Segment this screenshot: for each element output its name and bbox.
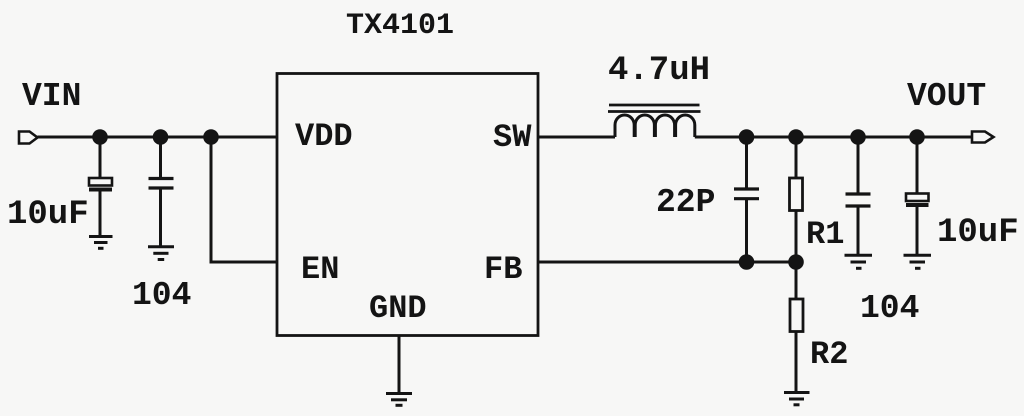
junction node FB divider bbox=[788, 254, 804, 270]
junction node at C1 bbox=[92, 129, 108, 145]
svg-text:FB: FB bbox=[484, 251, 522, 288]
svg-text:TX4101: TX4101 bbox=[346, 9, 454, 43]
ground under IC GND bbox=[386, 394, 412, 406]
wire GND lead under IC bbox=[398, 336, 401, 393]
ground under C5 bbox=[904, 255, 932, 268]
wire inductor to VOUT terminal bbox=[695, 136, 972, 139]
inductor L1 4.7uH bbox=[608, 105, 701, 137]
capacitor C4 104 output ceramic bbox=[846, 137, 871, 254]
svg-text:R2: R2 bbox=[810, 336, 848, 373]
ground under C2 bbox=[148, 247, 174, 260]
svg-text:GND: GND bbox=[369, 290, 427, 327]
wire FB (FB pin to feedback node) bbox=[538, 261, 796, 264]
output terminal VOUT bbox=[972, 132, 994, 143]
svg-text:EN: EN bbox=[301, 251, 339, 288]
wire EN (tap down and into EN pin) bbox=[211, 137, 277, 262]
junction node at C4 104 bbox=[850, 129, 866, 145]
ground under C4 bbox=[845, 255, 873, 268]
svg-text:4.7uH: 4.7uH bbox=[608, 52, 710, 90]
resistor R2 bbox=[790, 262, 803, 391]
junction node at C3 bottom bbox=[739, 254, 755, 270]
capacitor C5 10uF output electrolytic bbox=[906, 137, 929, 254]
junction node at C5 10uF bbox=[909, 129, 925, 145]
wire VIN rail (terminal to VDD pin) bbox=[38, 136, 278, 139]
junction node at EN tap bbox=[203, 129, 219, 145]
capacitor C2 104 input ceramic bbox=[149, 137, 174, 246]
junction node at C3 22P bbox=[739, 129, 755, 145]
capacitor C1 10uF input electrolytic bbox=[89, 137, 112, 235]
capacitor C3 22P feedforward bbox=[734, 137, 759, 262]
junction node at R1 top bbox=[788, 129, 804, 145]
IC U1 TX4101 body bbox=[277, 74, 538, 336]
resistor R1 bbox=[790, 137, 803, 262]
ground under C1 bbox=[89, 237, 113, 249]
input terminal VIN bbox=[19, 132, 38, 144]
wire SW to inductor bbox=[538, 136, 615, 139]
svg-text:10uF: 10uF bbox=[7, 196, 89, 234]
svg-text:104: 104 bbox=[132, 277, 191, 314]
svg-text:VOUT: VOUT bbox=[907, 78, 986, 115]
ground under R2 bbox=[784, 393, 810, 405]
svg-text:22P: 22P bbox=[656, 184, 715, 221]
svg-text:VDD: VDD bbox=[295, 118, 353, 155]
svg-text:R1: R1 bbox=[806, 216, 844, 253]
svg-text:VIN: VIN bbox=[22, 78, 81, 115]
svg-text:SW: SW bbox=[493, 119, 532, 156]
svg-text:10uF: 10uF bbox=[937, 214, 1019, 252]
svg-text:104: 104 bbox=[860, 290, 919, 327]
junction node at C2 bbox=[153, 129, 169, 145]
